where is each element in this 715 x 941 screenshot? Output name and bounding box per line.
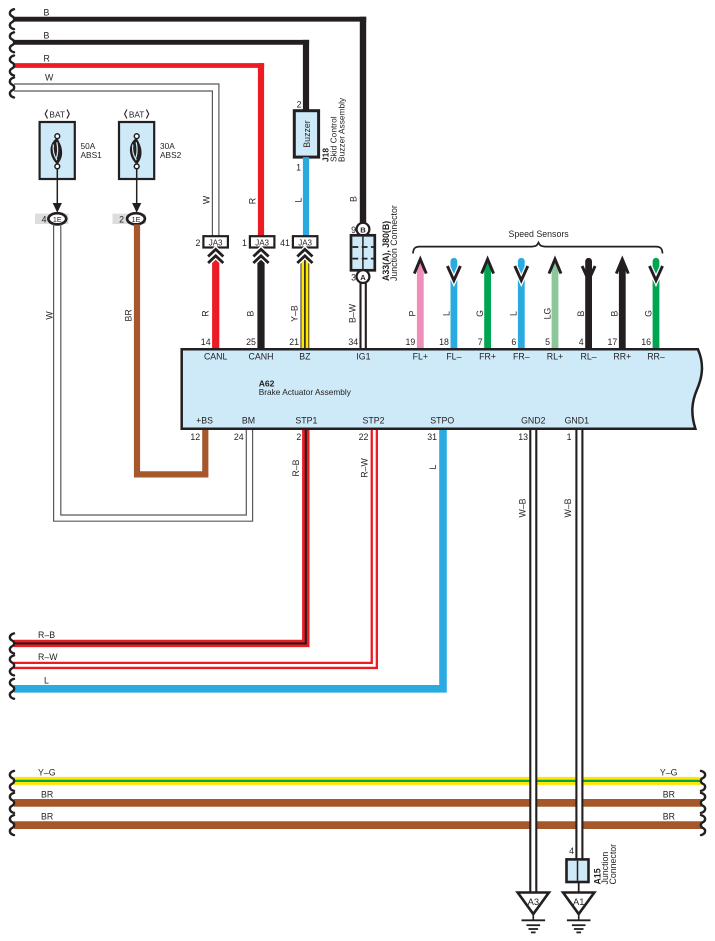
svg-text:GND1: GND1 bbox=[565, 416, 590, 426]
break symbol wire R-W left bbox=[10, 655, 14, 675]
svg-text:FL–: FL– bbox=[446, 351, 461, 361]
svg-text:31: 31 bbox=[427, 432, 437, 442]
ground A1 bbox=[563, 893, 594, 933]
svg-text:4: 4 bbox=[569, 846, 574, 856]
ground A3 bbox=[518, 893, 549, 933]
svg-text:21: 21 bbox=[289, 337, 299, 347]
wire R (to junction JA3 pin 1) bbox=[14, 63, 264, 68]
svg-text:2: 2 bbox=[296, 432, 301, 442]
svg-text:B: B bbox=[44, 31, 50, 41]
svg-text:R: R bbox=[44, 53, 50, 63]
svg-text:R: R bbox=[248, 198, 258, 204]
wire from A15 to ground A1 bbox=[578, 882, 580, 893]
svg-text:RR–: RR– bbox=[647, 351, 665, 361]
svg-text:STPO: STPO bbox=[430, 416, 454, 426]
junction connector JA3 pin 2 bbox=[195, 236, 227, 248]
svg-text:2: 2 bbox=[195, 238, 200, 248]
fuse 50A ABS1 bbox=[40, 110, 103, 180]
svg-text:Buzzer: Buzzer bbox=[302, 120, 312, 147]
wire B-W from A33 pin 3 to A62 pin IG1 (double line) bbox=[361, 283, 366, 349]
svg-text:CANH: CANH bbox=[249, 351, 274, 361]
svg-text:1: 1 bbox=[242, 238, 247, 248]
break symbol wire BR1 right bbox=[701, 793, 705, 813]
wire G speed sensor RR- bbox=[650, 261, 663, 349]
connector 1E pin 4 bbox=[35, 213, 69, 224]
svg-text:P: P bbox=[408, 310, 418, 316]
break symbol wire W left bbox=[10, 78, 14, 98]
svg-text:BM: BM bbox=[242, 416, 255, 426]
svg-text:R–B: R–B bbox=[38, 630, 55, 640]
svg-text:Speed Sensors: Speed Sensors bbox=[509, 229, 570, 239]
svg-text:24: 24 bbox=[234, 432, 244, 442]
wire B (battery feed 1, to junction connector A33 pin 9) bbox=[14, 17, 366, 22]
wire L speed sensor FL- bbox=[447, 261, 460, 349]
junction mark below JA3 pin 41 bbox=[297, 249, 312, 263]
svg-text:41: 41 bbox=[280, 238, 290, 248]
break symbol wire Y-G left bbox=[10, 771, 14, 791]
svg-text:2: 2 bbox=[297, 100, 302, 110]
svg-text:IG1: IG1 bbox=[356, 351, 370, 361]
svg-text:W: W bbox=[202, 195, 212, 204]
svg-text:19: 19 bbox=[406, 337, 416, 347]
label A15 Junction Connector bbox=[593, 844, 618, 885]
wire L speed sensor FR- bbox=[515, 261, 528, 349]
svg-text:A3: A3 bbox=[528, 896, 539, 907]
wire LG speed sensor RL+ bbox=[549, 259, 561, 349]
svg-text:34: 34 bbox=[348, 337, 358, 347]
svg-text:G: G bbox=[475, 310, 485, 317]
svg-text:ABS1: ABS1 bbox=[81, 150, 103, 160]
wire L from buzzer pin 1 to JA3 pin 41 bbox=[303, 157, 309, 236]
wire BR horizontal 1 bbox=[14, 799, 702, 807]
svg-text:B: B bbox=[348, 196, 358, 202]
svg-text:A1: A1 bbox=[573, 896, 584, 907]
svg-text:L: L bbox=[441, 311, 451, 316]
svg-text:4: 4 bbox=[42, 215, 47, 225]
svg-text:1E: 1E bbox=[132, 215, 141, 224]
junction connector JA3 pin 1 bbox=[242, 236, 274, 248]
wire BR from 1E pin 2 to A62 pin +BS bbox=[137, 224, 205, 474]
svg-text:Junction Connector: Junction Connector bbox=[389, 205, 399, 281]
connector 1E pin 2 bbox=[113, 213, 147, 224]
junction mark below JA3 pin 1 bbox=[253, 249, 268, 263]
svg-text:16: 16 bbox=[641, 337, 651, 347]
svg-text:STP2: STP2 bbox=[362, 416, 384, 426]
svg-text:G: G bbox=[643, 310, 653, 317]
svg-text:BAT: BAT bbox=[49, 110, 65, 120]
svg-text:FR–: FR– bbox=[513, 351, 530, 361]
svg-text:22: 22 bbox=[359, 432, 369, 442]
break symbol wire R-B left bbox=[10, 633, 14, 653]
svg-text:BR: BR bbox=[41, 789, 53, 799]
junction mark below JA3 pin 2 bbox=[208, 249, 223, 263]
break symbol wire B1 left bbox=[10, 9, 14, 29]
svg-text:2: 2 bbox=[119, 215, 124, 225]
break symbol wire BR1 left bbox=[10, 793, 14, 813]
svg-text:B: B bbox=[246, 310, 256, 316]
svg-text:1E: 1E bbox=[53, 215, 62, 224]
svg-text:B: B bbox=[576, 310, 586, 316]
svg-text:B: B bbox=[360, 225, 366, 234]
svg-text:R–W: R–W bbox=[359, 458, 369, 478]
ECU A62 Brake Actuator Assembly bbox=[182, 349, 702, 428]
wire R-B from A62 pin STP1 bbox=[14, 430, 306, 643]
svg-text:STP1: STP1 bbox=[295, 416, 317, 426]
svg-text:BAT: BAT bbox=[129, 110, 145, 120]
buzzer J18 Skid Control Buzzer Assembly bbox=[294, 100, 318, 173]
break symbol wire Y-G right bbox=[701, 771, 705, 791]
svg-text:5: 5 bbox=[545, 337, 550, 347]
svg-text:6: 6 bbox=[511, 337, 516, 347]
wire W from 1E pin 4 to A62 pin BM (double line) bbox=[54, 224, 253, 521]
wire W-B from A62 pin GND1 to ground A1 (double line) bbox=[576, 430, 582, 860]
svg-text:12: 12 bbox=[190, 432, 200, 442]
svg-text:RR+: RR+ bbox=[613, 351, 631, 361]
svg-text:LG: LG bbox=[542, 307, 552, 319]
svg-text:3: 3 bbox=[351, 273, 356, 283]
junction connector JA3 pin 41 bbox=[280, 236, 317, 248]
wire W (to junction JA3 pin 2, double line) bbox=[14, 84, 219, 237]
svg-text:1: 1 bbox=[567, 432, 572, 442]
svg-text:B: B bbox=[610, 310, 620, 316]
wire Y-B from JA3 pin 41 to A62 pin BZ bbox=[300, 250, 309, 349]
svg-text:Connector: Connector bbox=[608, 844, 618, 885]
wire R-W from A62 pin STP2 bbox=[14, 430, 374, 665]
svg-text:Brake Actuator Assembly: Brake Actuator Assembly bbox=[259, 387, 352, 397]
break symbol wire R left bbox=[10, 56, 14, 76]
fuse 30A ABS2 bbox=[119, 110, 182, 180]
wire W-B from A62 pin GND2 to ground A3 (double line) bbox=[530, 430, 536, 893]
wire R from JA3 pin 2 to A62 pin CANL bbox=[212, 250, 219, 349]
svg-text:BR: BR bbox=[124, 309, 134, 321]
svg-text:R: R bbox=[200, 310, 210, 316]
svg-text:9: 9 bbox=[351, 225, 356, 235]
svg-text:BR: BR bbox=[663, 812, 675, 822]
svg-text:GND2: GND2 bbox=[521, 416, 546, 426]
svg-text:Y–G: Y–G bbox=[660, 767, 678, 777]
svg-text:RL–: RL– bbox=[581, 351, 597, 361]
break symbol wire L left bbox=[10, 679, 14, 699]
svg-text:BZ: BZ bbox=[299, 351, 311, 361]
svg-text:+BS: +BS bbox=[196, 416, 213, 426]
svg-text:BR: BR bbox=[41, 812, 53, 822]
svg-text:W: W bbox=[45, 311, 55, 320]
break symbol wire B2 left bbox=[10, 32, 14, 52]
svg-text:L: L bbox=[44, 676, 49, 686]
svg-text:18: 18 bbox=[439, 337, 449, 347]
wire B (battery feed 2, to buzzer pin 2) bbox=[14, 40, 309, 45]
wire B speed sensor RR+ bbox=[616, 259, 628, 349]
svg-text:Y–G: Y–G bbox=[38, 767, 56, 777]
label A33(A), J80(B) Junction Connector bbox=[381, 205, 399, 281]
svg-text:Y–B: Y–B bbox=[290, 305, 300, 322]
svg-text:ABS2: ABS2 bbox=[160, 150, 182, 160]
svg-text:FL+: FL+ bbox=[413, 351, 428, 361]
svg-text:4: 4 bbox=[579, 337, 584, 347]
svg-text:FR+: FR+ bbox=[479, 351, 496, 361]
svg-text:R–B: R–B bbox=[291, 459, 301, 476]
svg-text:1: 1 bbox=[296, 163, 301, 173]
svg-text:7: 7 bbox=[478, 337, 483, 347]
wire BR horizontal 2 bbox=[14, 821, 702, 829]
svg-text:W–B: W–B bbox=[563, 498, 573, 517]
break symbol wire BR2 right bbox=[701, 815, 705, 835]
svg-text:17: 17 bbox=[608, 337, 618, 347]
svg-text:W: W bbox=[45, 72, 54, 82]
break symbol wire BR2 left bbox=[10, 815, 14, 835]
wire G speed sensor FR+ bbox=[482, 259, 494, 349]
svg-text:Buzzer Assembly: Buzzer Assembly bbox=[336, 97, 346, 162]
label J18 Skid Control Buzzer Assembly bbox=[321, 97, 347, 162]
lead from fuse ABS1 to connector 1E pin 4 bbox=[53, 169, 62, 213]
svg-text:RL+: RL+ bbox=[547, 351, 563, 361]
junction connector A15 pin 4 bbox=[567, 846, 589, 882]
wire B from JA3 pin 1 to A62 pin CANH bbox=[257, 250, 264, 349]
svg-text:R–W: R–W bbox=[38, 652, 58, 662]
wire B speed sensor RL- bbox=[582, 261, 595, 349]
svg-text:L: L bbox=[509, 311, 519, 316]
svg-text:B: B bbox=[44, 8, 50, 18]
svg-text:A: A bbox=[360, 273, 366, 282]
svg-text:L: L bbox=[428, 464, 438, 469]
svg-text:B–W: B–W bbox=[347, 303, 357, 323]
svg-text:14: 14 bbox=[201, 337, 211, 347]
wire P speed sensor FL+ bbox=[414, 259, 426, 349]
svg-text:JA3: JA3 bbox=[255, 239, 269, 248]
brace speed sensors bbox=[413, 243, 663, 254]
svg-text:13: 13 bbox=[518, 432, 528, 442]
svg-text:CANL: CANL bbox=[204, 351, 228, 361]
wire L from A62 pin STPO bbox=[14, 430, 443, 689]
wire Y-G horizontal bbox=[14, 777, 702, 785]
lead from fuse ABS2 to connector 1E pin 2 bbox=[132, 169, 141, 213]
svg-text:25: 25 bbox=[246, 337, 256, 347]
svg-text:W–B: W–B bbox=[517, 498, 527, 517]
svg-text:BR: BR bbox=[663, 789, 675, 799]
junction connector A33(A), J80(B) bbox=[351, 223, 375, 283]
svg-text:L: L bbox=[294, 197, 304, 202]
